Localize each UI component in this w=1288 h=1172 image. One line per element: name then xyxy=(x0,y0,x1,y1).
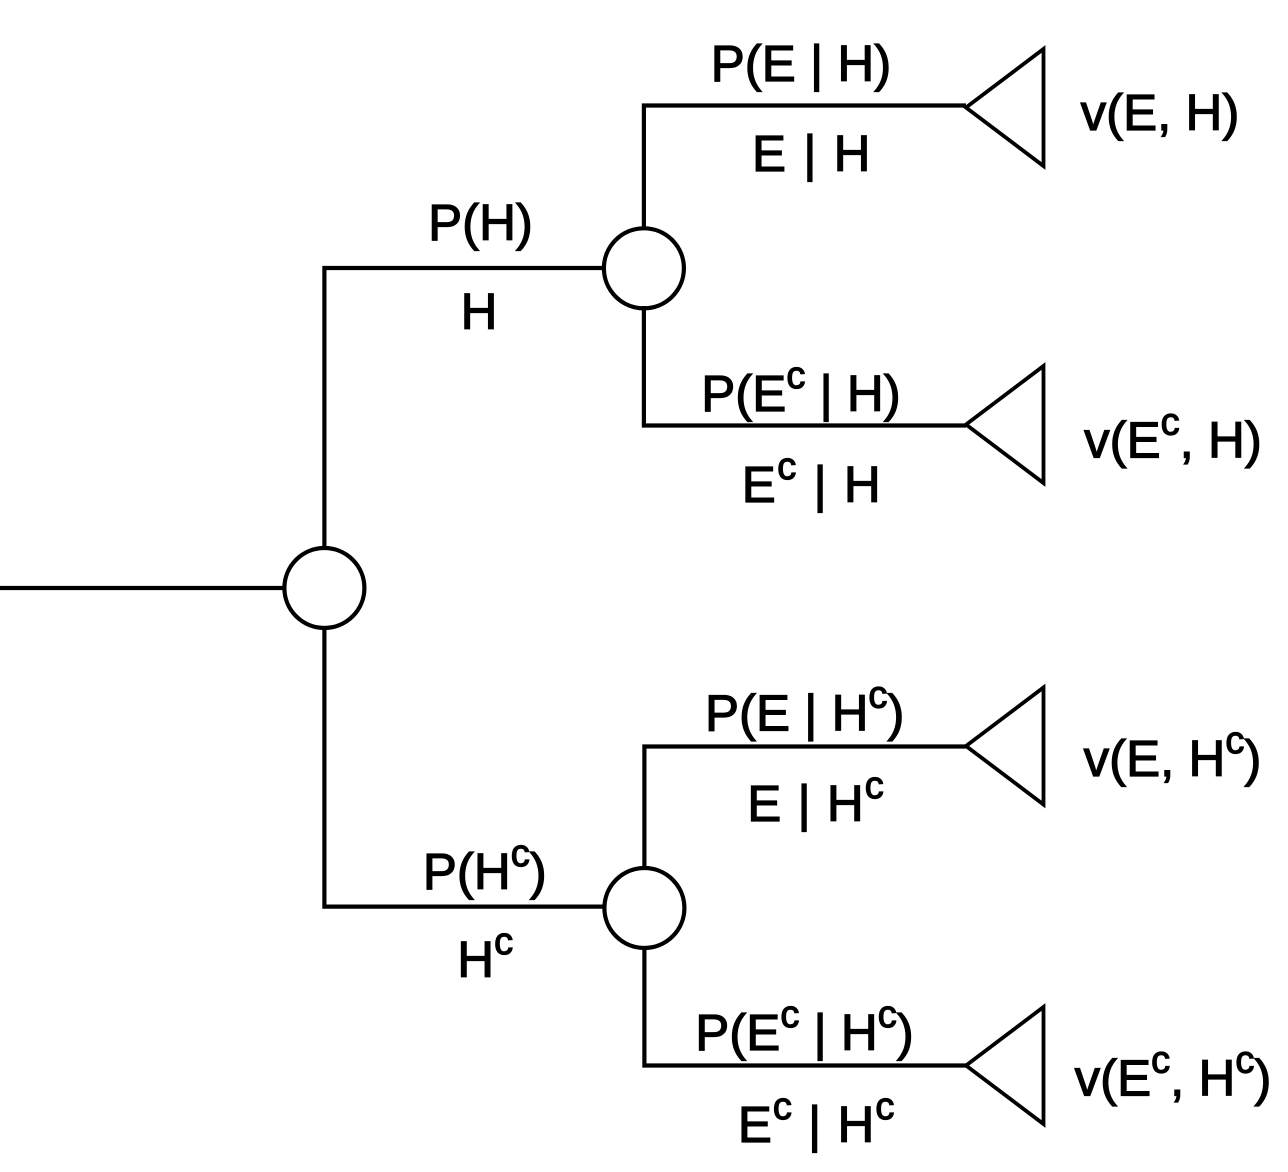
svg-text:Hc: Hc xyxy=(457,921,513,988)
svg-text:P(Hc): P(Hc) xyxy=(423,833,547,900)
svg-text:v(Ec, Hc): v(Ec, Hc) xyxy=(1075,1040,1272,1107)
terminal T4 xyxy=(966,1007,1044,1124)
svg-text:Ec | Hc: Ec | Hc xyxy=(738,1086,895,1153)
svg-text:H: H xyxy=(461,283,498,340)
wire branch Ec|H xyxy=(644,306,966,426)
svg-text:v(Ec, H): v(Ec, H) xyxy=(1084,402,1262,469)
svg-text:P(H): P(H) xyxy=(428,194,533,251)
svg-text:P(E | H): P(E | H) xyxy=(711,35,891,92)
terminal T2 xyxy=(966,366,1044,483)
svg-text:v(E, H): v(E, H) xyxy=(1081,84,1240,141)
wire branch Hc xyxy=(324,626,604,907)
svg-text:P(Ec | Hc): P(Ec | Hc) xyxy=(695,994,913,1061)
terminal T1 xyxy=(966,49,1044,166)
svg-text:Ec | H: Ec | H xyxy=(742,446,882,513)
node N2 chance node H xyxy=(604,228,684,308)
svg-text:E | H: E | H xyxy=(752,125,872,182)
svg-text:v(E, Hc): v(E, Hc) xyxy=(1084,720,1262,787)
wire branch E|Hc xyxy=(644,747,966,871)
wire root xyxy=(0,586,285,590)
wire branch Ec|Hc xyxy=(644,946,966,1066)
svg-text:E | Hc: E | Hc xyxy=(747,765,884,832)
terminal T3 xyxy=(966,688,1044,805)
wire branch E|H xyxy=(644,106,966,231)
node N1 root chance node xyxy=(284,548,364,628)
node N3 chance node Hc xyxy=(604,868,684,948)
svg-text:P(Ec | H): P(Ec | H) xyxy=(701,355,900,422)
wire branch H xyxy=(324,268,604,550)
svg-text:P(E | Hc): P(E | Hc) xyxy=(705,675,904,742)
